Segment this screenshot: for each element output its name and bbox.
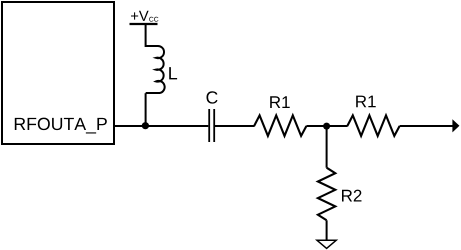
capacitor C plate 1: [208, 109, 210, 142]
node junction 2: [323, 123, 330, 130]
node junction 1: [142, 122, 149, 129]
wire capacitor to R1a: [215, 125, 255, 127]
label R1 (second): [356, 96, 376, 108]
ground symbol: [317, 240, 336, 248]
wire Vcc bar to inductor: [145, 23, 147, 47]
wire box pin to capacitor: [114, 125, 208, 127]
wire R1a to junction 2: [306, 125, 347, 127]
output arrowhead: [453, 120, 459, 131]
power rail bar +Vcc: [130, 23, 158, 25]
device box: [2, 2, 114, 144]
inductor L: [146, 46, 165, 93]
power label +Vcc: [131, 11, 149, 21]
resistor R1 (second) zigzag: [347, 115, 399, 135]
label L: [169, 67, 177, 79]
wire R1b to output arrow: [400, 125, 454, 127]
label R1 (first): [270, 96, 290, 108]
wire inductor to junction 1: [145, 93, 147, 126]
label R2: [342, 190, 361, 202]
resistor R2 zigzag: [318, 168, 335, 221]
capacitor C plate 2: [213, 109, 215, 142]
resistor R1 (first) zigzag: [254, 115, 306, 135]
pin label RFOUTA_P: [15, 118, 107, 134]
wire R2 to ground: [326, 220, 328, 240]
label C: [206, 91, 217, 103]
wire junction 2 down to R2: [326, 126, 328, 168]
